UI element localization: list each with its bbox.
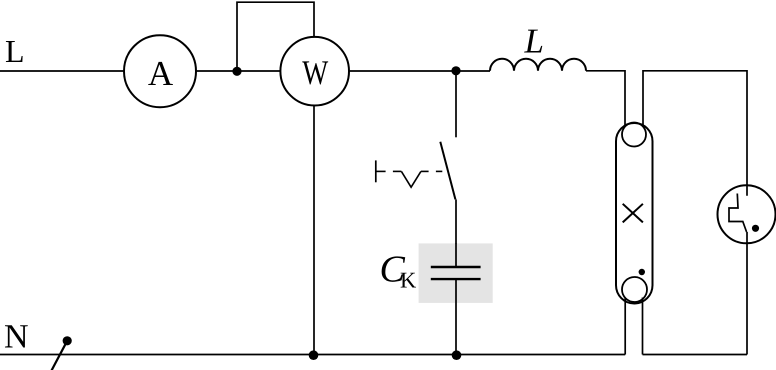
bottom rail right segment xyxy=(643,354,748,356)
svg-text:N: N xyxy=(4,319,29,356)
lamp X mark xyxy=(623,204,643,223)
gas indicator dot in tube xyxy=(639,269,645,275)
fluorescent tube body xyxy=(616,123,653,304)
ammeter A xyxy=(124,35,196,107)
svg-text:K: K xyxy=(400,268,417,293)
capacitor highlight box xyxy=(419,243,493,303)
wire inductor to tube top-left pin xyxy=(586,71,625,127)
wire tube top-right pin to top rail xyxy=(643,71,747,196)
wattmeter W xyxy=(280,37,349,106)
tube top electrode xyxy=(622,123,646,147)
wire tube bottom-left pin to bottom rail xyxy=(624,298,626,355)
wire wattmeter to inductor xyxy=(349,70,490,72)
starter gas dot xyxy=(752,225,759,232)
wire wattmeter voltage-coil loop xyxy=(237,2,314,71)
wire over highlight (top plate lead) xyxy=(455,243,457,267)
wire capacitor to bottom rail xyxy=(455,279,457,355)
wire switch to capacitor xyxy=(455,199,457,267)
wire starter bottom to bottom rail xyxy=(746,232,748,355)
capacitor CK plates xyxy=(431,267,481,279)
wire tube bottom-right pin to bottom rail xyxy=(642,298,644,355)
bottom rail left segment xyxy=(0,354,625,356)
node junction (wattmeter branch at bottom) xyxy=(309,350,319,360)
wire branch junction down to switch xyxy=(455,71,457,137)
svg-text:L: L xyxy=(5,33,25,69)
node junction (branch to starter switch / capacitor) xyxy=(451,66,460,75)
label C K xyxy=(380,249,418,293)
node junction (wattmeter voltage tap) xyxy=(232,67,241,76)
wire L terminal to ammeter xyxy=(0,70,124,72)
switch S blade (starter push switch, open) xyxy=(440,142,455,200)
svg-text:A: A xyxy=(148,54,174,93)
starter bent bimetal electrode xyxy=(729,194,747,233)
tube bottom electrode xyxy=(622,277,647,302)
switch on neutral: contact dot xyxy=(63,336,72,345)
svg-text:L: L xyxy=(524,22,544,61)
svg-text:W: W xyxy=(302,54,328,92)
inductor L (ballast) xyxy=(490,59,586,71)
switch on neutral: blade xyxy=(52,341,68,370)
switch actuator dashed linkage xyxy=(376,171,443,187)
glow starter circle xyxy=(718,185,776,243)
wire ammeter to wattmeter xyxy=(196,70,281,72)
wire wattmeter current branch down xyxy=(313,106,315,356)
switch actuator terminal bar xyxy=(375,160,377,182)
node junction (capacitor branch at bottom) xyxy=(452,350,462,360)
